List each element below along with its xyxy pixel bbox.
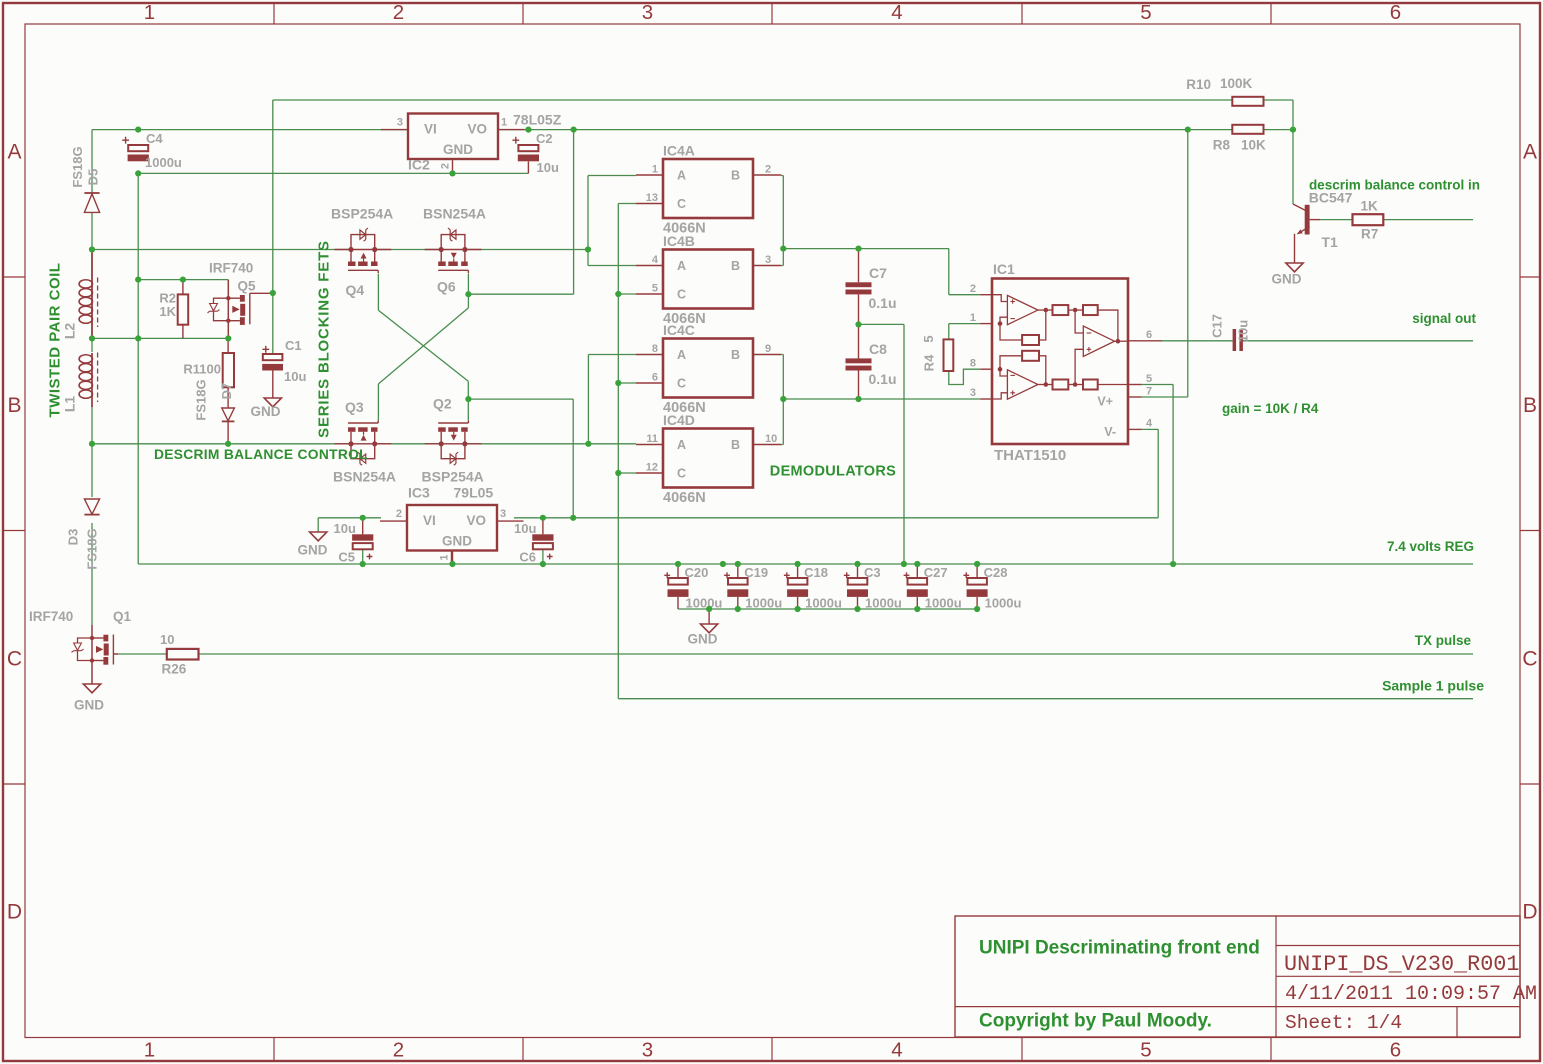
svg-text:B: B — [1523, 394, 1537, 417]
svg-text:10u: 10u — [284, 369, 306, 384]
svg-text:10u: 10u — [537, 160, 559, 175]
svg-text:1000u: 1000u — [745, 596, 782, 611]
svg-text:8: 8 — [652, 343, 658, 355]
svg-text:1000u: 1000u — [865, 596, 902, 611]
svg-text:C28: C28 — [984, 565, 1008, 580]
svg-text:C1: C1 — [285, 338, 302, 353]
svg-text:GND: GND — [298, 543, 328, 558]
svg-text:0.1u: 0.1u — [869, 371, 897, 387]
svg-text:6: 6 — [1390, 1039, 1401, 1062]
svg-text:D: D — [7, 901, 22, 924]
svg-text:FS18G: FS18G — [70, 146, 85, 187]
svg-text:78L05Z: 78L05Z — [513, 112, 562, 128]
svg-text:R7: R7 — [1361, 227, 1378, 242]
svg-text:2: 2 — [393, 1039, 404, 1062]
svg-text:10u: 10u — [334, 521, 356, 536]
svg-text:R10: R10 — [1186, 77, 1211, 92]
svg-text:Q2: Q2 — [433, 396, 452, 412]
svg-text:5: 5 — [1140, 1, 1151, 24]
svg-text:Sheet: 1/4: Sheet: 1/4 — [1285, 1012, 1402, 1034]
svg-text:GND: GND — [251, 404, 281, 419]
svg-text:C: C — [1522, 648, 1537, 671]
svg-text:VO: VO — [468, 121, 488, 136]
svg-text:C: C — [677, 197, 686, 211]
svg-text:GND: GND — [688, 632, 718, 647]
svg-text:IC1: IC1 — [993, 261, 1015, 277]
svg-text:UNIPI_DS_V230_R001: UNIPI_DS_V230_R001 — [1284, 952, 1519, 977]
svg-text:1000u: 1000u — [925, 596, 962, 611]
svg-text:FS18G: FS18G — [85, 528, 100, 569]
svg-text:C8: C8 — [869, 341, 887, 357]
svg-text:1: 1 — [439, 554, 451, 560]
svg-text:11: 11 — [646, 433, 658, 445]
svg-text:R26: R26 — [162, 662, 187, 677]
svg-text:IC4C: IC4C — [663, 322, 695, 338]
svg-text:D3: D3 — [66, 529, 81, 546]
svg-text:IC2: IC2 — [408, 157, 430, 173]
svg-text:Sample 1 pulse: Sample 1 pulse — [1382, 678, 1484, 694]
svg-text:79L05: 79L05 — [454, 485, 494, 501]
svg-text:D5: D5 — [86, 169, 101, 186]
svg-text:T1: T1 — [1322, 234, 1339, 250]
svg-text:A: A — [677, 438, 686, 452]
svg-text:VI: VI — [423, 513, 436, 528]
svg-text:IC4B: IC4B — [663, 233, 695, 249]
svg-text:0.1u: 0.1u — [869, 295, 897, 311]
svg-text:Q6: Q6 — [437, 279, 456, 295]
svg-text:Q1: Q1 — [113, 609, 132, 624]
svg-text:3: 3 — [765, 254, 771, 266]
svg-text:Q4: Q4 — [346, 282, 365, 298]
svg-text:6: 6 — [1390, 1, 1401, 24]
svg-text:V-: V- — [1104, 425, 1116, 439]
svg-text:2: 2 — [765, 164, 771, 176]
svg-text:C17: C17 — [1210, 314, 1225, 338]
svg-text:DESCRIM BALANCE CONTROL: DESCRIM BALANCE CONTROL — [154, 447, 368, 462]
svg-text:5: 5 — [1146, 373, 1152, 385]
svg-text:3: 3 — [500, 508, 506, 520]
svg-text:1: 1 — [652, 164, 658, 176]
svg-text:9: 9 — [765, 343, 771, 355]
svg-text:C18: C18 — [804, 565, 828, 580]
svg-text:6: 6 — [652, 372, 658, 384]
svg-text:5: 5 — [652, 283, 658, 295]
svg-text:13: 13 — [646, 192, 658, 204]
svg-text:R1100: R1100 — [183, 362, 221, 377]
svg-text:B: B — [731, 259, 740, 273]
svg-text:C7: C7 — [869, 265, 887, 281]
svg-text:VO: VO — [467, 513, 487, 528]
svg-text:4/11/2011 10:09:57 AM: 4/11/2011 10:09:57 AM — [1285, 983, 1537, 1006]
svg-text:1000u: 1000u — [686, 596, 723, 611]
svg-text:A: A — [1523, 141, 1537, 164]
svg-text:Q5: Q5 — [238, 279, 257, 294]
svg-text:GND: GND — [443, 142, 473, 157]
svg-text:1: 1 — [501, 117, 507, 129]
svg-text:1: 1 — [144, 1, 155, 24]
svg-text:signal out: signal out — [1412, 311, 1476, 326]
svg-text:5: 5 — [1140, 1039, 1151, 1062]
svg-text:C4: C4 — [146, 131, 163, 146]
svg-text:B: B — [731, 169, 740, 183]
svg-text:1000u: 1000u — [805, 596, 842, 611]
svg-text:10: 10 — [160, 632, 174, 647]
svg-text:R4: R4 — [922, 354, 937, 371]
svg-text:12: 12 — [646, 462, 658, 474]
svg-text:UNIPI Descriminating front end: UNIPI Descriminating front end — [979, 938, 1260, 959]
svg-text:GND: GND — [1272, 272, 1302, 287]
svg-text:2: 2 — [393, 1, 404, 24]
svg-text:1: 1 — [970, 312, 976, 324]
svg-text:BSP254A: BSP254A — [331, 206, 393, 222]
svg-text:1000u: 1000u — [145, 155, 182, 170]
svg-text:IRF740: IRF740 — [29, 609, 73, 624]
svg-text:A: A — [677, 348, 686, 362]
svg-text:C2: C2 — [536, 131, 553, 146]
svg-text:gain = 10K / R4: gain = 10K / R4 — [1222, 401, 1319, 416]
svg-text:D: D — [1522, 901, 1537, 924]
svg-text:4066N: 4066N — [663, 490, 706, 506]
svg-text:SERIES BLOCKING FETS: SERIES BLOCKING FETS — [316, 240, 333, 438]
svg-text:BSP254A: BSP254A — [422, 469, 484, 485]
svg-text:7: 7 — [1146, 386, 1152, 398]
svg-text:B: B — [731, 348, 740, 362]
svg-text:Q3: Q3 — [345, 399, 364, 415]
svg-text:1K: 1K — [1361, 199, 1379, 214]
svg-text:GND: GND — [442, 534, 472, 549]
svg-text:R8: R8 — [1213, 138, 1231, 153]
svg-text:descrim balance control in: descrim balance control in — [1309, 178, 1480, 193]
svg-text:C27: C27 — [924, 565, 948, 580]
svg-text:D7: D7 — [219, 383, 234, 400]
svg-text:A: A — [7, 141, 21, 164]
svg-text:3: 3 — [397, 117, 403, 129]
svg-text:C: C — [677, 377, 686, 391]
svg-text:4: 4 — [891, 1, 902, 24]
svg-text:L2: L2 — [62, 323, 78, 340]
svg-text:C19: C19 — [744, 565, 768, 580]
svg-text:6: 6 — [1146, 329, 1152, 341]
svg-text:7.4 volts REG: 7.4 volts REG — [1387, 539, 1474, 554]
svg-text:BSN254A: BSN254A — [333, 469, 396, 485]
svg-text:4: 4 — [891, 1039, 902, 1062]
svg-text:4: 4 — [652, 254, 659, 266]
svg-text:2: 2 — [440, 163, 452, 169]
svg-text:V+: V+ — [1097, 395, 1113, 409]
svg-text:C3: C3 — [864, 565, 881, 580]
svg-text:A: A — [677, 169, 686, 183]
svg-text:Copyright by Paul Moody.: Copyright by Paul Moody. — [979, 1011, 1212, 1032]
svg-text:10K: 10K — [1241, 138, 1266, 153]
svg-text:VI: VI — [424, 121, 437, 136]
svg-text:L1: L1 — [62, 396, 78, 413]
svg-text:1: 1 — [144, 1039, 155, 1062]
svg-text:B: B — [7, 394, 21, 417]
svg-text:B: B — [731, 438, 740, 452]
svg-text:BSN254A: BSN254A — [423, 206, 486, 222]
svg-text:C6: C6 — [519, 550, 536, 565]
svg-text:C: C — [677, 288, 686, 302]
svg-text:2: 2 — [970, 283, 976, 295]
svg-text:2: 2 — [396, 508, 402, 520]
svg-text:10u: 10u — [1236, 320, 1251, 342]
svg-text:8: 8 — [970, 357, 976, 369]
svg-text:C: C — [677, 467, 686, 481]
svg-text:10u: 10u — [514, 521, 536, 536]
svg-text:C: C — [7, 648, 22, 671]
svg-text:IC4A: IC4A — [663, 143, 695, 159]
svg-text:GND: GND — [74, 698, 104, 713]
svg-text:THAT1510: THAT1510 — [994, 447, 1066, 464]
svg-text:3: 3 — [642, 1039, 653, 1062]
svg-text:A: A — [677, 259, 686, 273]
svg-text:IRF740: IRF740 — [209, 261, 253, 276]
svg-text:C5: C5 — [338, 550, 355, 565]
svg-text:5: 5 — [921, 335, 936, 342]
svg-text:10: 10 — [765, 433, 777, 445]
svg-text:3: 3 — [970, 387, 976, 399]
svg-text:100K: 100K — [1220, 76, 1253, 91]
svg-text:FS18G: FS18G — [194, 379, 209, 420]
svg-text:IC4D: IC4D — [663, 412, 695, 428]
svg-text:TWISTED PAIR COIL: TWISTED PAIR COIL — [47, 263, 64, 418]
svg-text:4: 4 — [1146, 418, 1153, 430]
svg-text:C20: C20 — [685, 565, 709, 580]
svg-text:TX pulse: TX pulse — [1415, 633, 1472, 648]
svg-text:1000u: 1000u — [985, 596, 1022, 611]
svg-text:1K: 1K — [159, 304, 176, 319]
svg-text:DEMODULATORS: DEMODULATORS — [770, 464, 896, 480]
svg-text:IC3: IC3 — [408, 485, 430, 501]
svg-text:3: 3 — [642, 1, 653, 24]
